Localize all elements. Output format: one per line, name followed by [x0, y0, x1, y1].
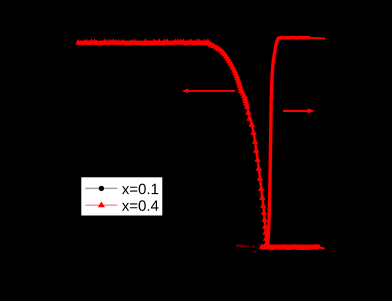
wire: warming branch bottom flat core	[262, 245, 318, 250]
legend box	[81, 177, 163, 217]
wire: x=0.4 cooling branch flat core	[77, 41, 208, 45]
wire: thin taper top right	[309, 37, 325, 40]
node: dim markers at dip bottom tail	[236, 244, 257, 253]
legend text x=0.1	[122, 184, 158, 195]
wire: x=0.4 warming branch connecting line	[262, 38, 320, 248]
legend text x=0.4	[122, 200, 159, 211]
right arrow	[283, 108, 315, 113]
legend line x=0.4	[85, 204, 117, 206]
legend marker triangle x=0.4	[98, 202, 105, 208]
legend marker circle x=0.1	[99, 186, 104, 191]
legend line x=0.1	[85, 187, 117, 189]
left arrow	[182, 89, 235, 94]
wire: thin taper bottom right	[317, 247, 325, 248]
node: x=0.4 triangle data markers	[75, 35, 321, 250]
wire: x=0.4 cooling branch connecting line	[77, 42, 267, 246]
